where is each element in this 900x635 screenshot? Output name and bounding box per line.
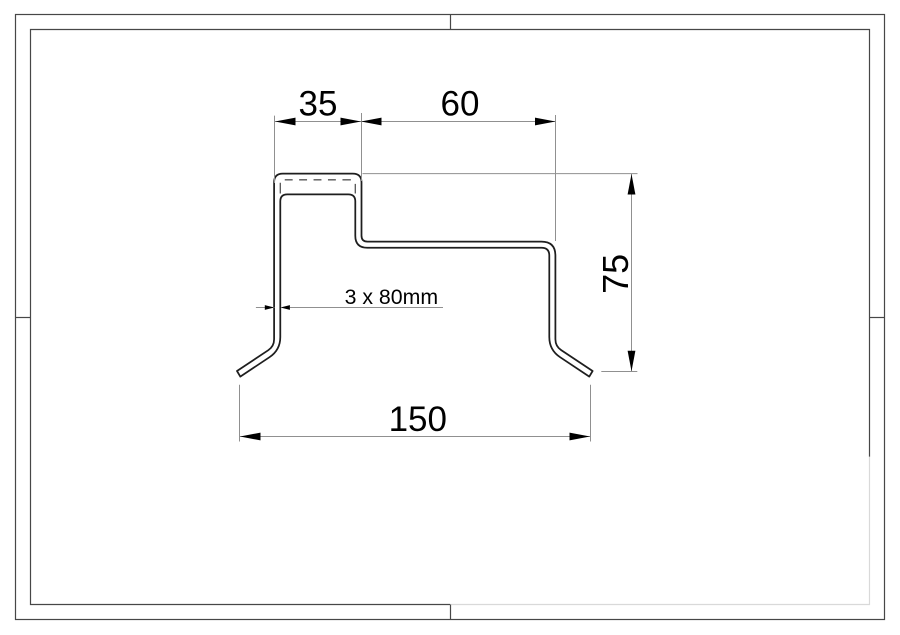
arrow 75 bottom [628,351,636,372]
centering tick top [450,15,452,30]
arrow 35 left [275,118,296,126]
svg-text:35: 35 [299,85,338,124]
arrow 150 right [570,433,591,441]
svg-text:60: 60 [441,85,480,124]
arrow 60 right [535,118,556,126]
bottom dimension line [240,436,590,438]
thickness arrow right [280,305,290,310]
arrow 150 left [240,433,261,441]
extension line left (x=274.5) [274,116,276,183]
centering tick bottom [450,605,452,620]
extension line 150 right [590,385,592,442]
right dimension line [631,174,633,372]
profile outline (sheet metal cross-section) [237,174,593,377]
drawing frame inner border (faded segment) [450,457,870,605]
thickness arrow left [265,305,275,310]
extension line 75 top [363,173,638,175]
centering tick left [16,317,31,319]
extension line 75 bottom [601,371,637,373]
arrow 75 top [628,174,636,195]
arrow 35 right [341,118,362,126]
top dimension line [275,121,556,123]
extension line middle (x=361) [361,113,363,181]
svg-text:3 x 80mm: 3 x 80mm [345,285,439,309]
hidden (dashed) line inside top flange [280,180,355,194]
centering tick right [870,317,885,319]
arrow 60 left [361,118,382,126]
svg-text:75: 75 [595,254,636,294]
thickness callout tail [256,307,275,309]
thickness leader line [290,307,443,309]
svg-text:150: 150 [389,400,447,439]
extension line 150 left [239,385,241,442]
extension line right (x=555.7) [555,115,557,241]
